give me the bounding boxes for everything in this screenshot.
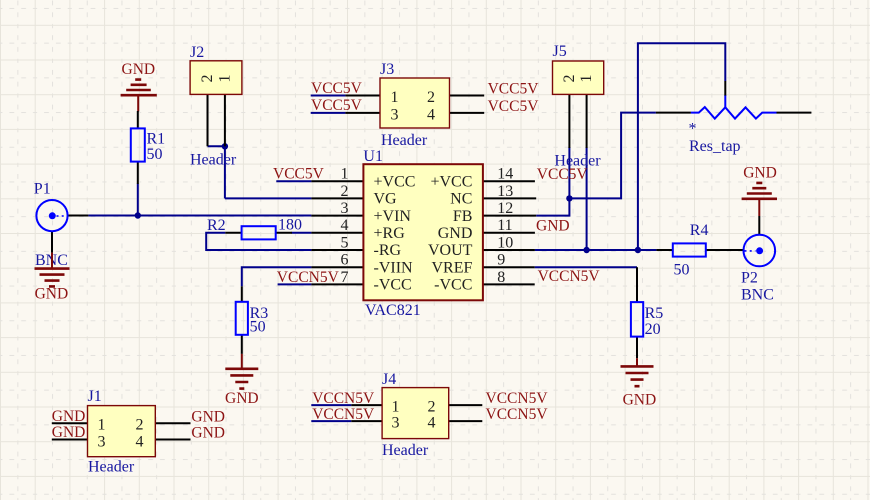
svg-text:VREF: VREF bbox=[431, 259, 472, 276]
svg-text:50: 50 bbox=[674, 262, 690, 279]
svg-text:GND: GND bbox=[438, 225, 473, 242]
svg-text:P1: P1 bbox=[34, 181, 51, 198]
svg-text:FB: FB bbox=[453, 208, 473, 225]
svg-text:GND: GND bbox=[225, 390, 259, 407]
svg-text:NC: NC bbox=[450, 191, 472, 208]
svg-text:3: 3 bbox=[341, 200, 349, 217]
svg-text:11: 11 bbox=[497, 217, 512, 234]
svg-text:-VIIN: -VIIN bbox=[374, 259, 414, 276]
wire R2 left to U1 pin5 bbox=[206, 233, 311, 250]
svg-text:20: 20 bbox=[645, 321, 661, 338]
svg-text:1: 1 bbox=[216, 75, 233, 83]
svg-text:3: 3 bbox=[98, 433, 106, 450]
svg-text:GND: GND bbox=[35, 286, 69, 303]
node junction loop/VOUT bbox=[635, 247, 641, 253]
svg-text:2: 2 bbox=[561, 75, 578, 83]
node junction J5 pin2 net bbox=[566, 195, 572, 201]
svg-text:VCCN5V: VCCN5V bbox=[486, 390, 549, 407]
svg-text:VCC5V: VCC5V bbox=[488, 81, 540, 98]
ground GND below R5 bbox=[621, 358, 657, 408]
connector J2 bbox=[190, 44, 242, 169]
svg-text:-VCC: -VCC bbox=[434, 277, 472, 294]
svg-text:GND: GND bbox=[52, 408, 86, 425]
svg-text:1: 1 bbox=[578, 75, 595, 83]
svg-text:VCC5V: VCC5V bbox=[537, 166, 589, 183]
ground GND above P2 bbox=[742, 165, 777, 217]
svg-text:VOUT: VOUT bbox=[428, 242, 473, 259]
connector J5 bbox=[553, 43, 604, 170]
svg-text:J1: J1 bbox=[88, 388, 102, 405]
svg-text:VCC5V: VCC5V bbox=[273, 166, 325, 183]
svg-text:Header: Header bbox=[190, 152, 237, 169]
svg-text:1: 1 bbox=[392, 399, 400, 416]
svg-text:VG: VG bbox=[374, 191, 398, 208]
svg-text:1: 1 bbox=[98, 416, 106, 433]
svg-text:Header: Header bbox=[382, 442, 429, 459]
svg-text:+VCC: +VCC bbox=[374, 173, 416, 190]
svg-text:5: 5 bbox=[341, 234, 349, 251]
connector J1 bbox=[52, 388, 191, 476]
wire J2 down bbox=[224, 146, 226, 198]
svg-text:VCCN5V: VCCN5V bbox=[486, 406, 549, 423]
svg-text:J4: J4 bbox=[382, 371, 396, 388]
svg-text:VCCN5V: VCCN5V bbox=[312, 390, 375, 407]
wire R1 bottom to net bbox=[137, 184, 139, 216]
wire J5 pin2 down bbox=[568, 147, 570, 198]
svg-text:3: 3 bbox=[391, 106, 399, 123]
resistor R5 bbox=[631, 267, 663, 358]
svg-text:Header: Header bbox=[381, 132, 428, 149]
svg-text:1: 1 bbox=[391, 89, 399, 106]
svg-text:VCCN5V: VCCN5V bbox=[312, 406, 375, 423]
svg-text:2: 2 bbox=[427, 89, 435, 106]
ground GND top-left bbox=[121, 61, 157, 112]
connector P1 BNC bbox=[34, 181, 89, 270]
wire to U1 pin12 FB bbox=[536, 198, 569, 215]
svg-text:2: 2 bbox=[136, 416, 144, 433]
svg-text:10: 10 bbox=[497, 234, 513, 251]
ground GND below R3 bbox=[225, 354, 259, 407]
wire to Res_tap left bbox=[569, 113, 656, 199]
svg-text:180: 180 bbox=[278, 217, 302, 234]
svg-text:4: 4 bbox=[427, 106, 435, 123]
svg-text:J2: J2 bbox=[190, 44, 204, 61]
svg-text:7: 7 bbox=[341, 269, 349, 286]
svg-text:GND: GND bbox=[743, 165, 777, 182]
node junction J2 bbox=[222, 143, 228, 149]
connector J3 bbox=[345, 61, 484, 149]
svg-text:R2: R2 bbox=[207, 217, 226, 234]
wire J2 to U1 pin2 bbox=[225, 197, 312, 199]
svg-text:4: 4 bbox=[136, 433, 144, 450]
wire J5 pin1 down to VOUT bbox=[586, 147, 588, 250]
node junction P1/R1 bbox=[135, 212, 141, 218]
svg-text:GND: GND bbox=[52, 424, 86, 441]
svg-text:J3: J3 bbox=[380, 61, 394, 78]
svg-text:*: * bbox=[689, 121, 697, 138]
svg-text:+VIN: +VIN bbox=[374, 208, 412, 225]
svg-text:GND: GND bbox=[191, 425, 225, 442]
svg-text:Header: Header bbox=[88, 459, 135, 476]
wire VOUT loop to Res_tap tap bbox=[638, 43, 725, 250]
svg-text:4: 4 bbox=[428, 415, 436, 432]
svg-text:-RG: -RG bbox=[374, 242, 402, 259]
svg-text:VCCN5V: VCCN5V bbox=[277, 269, 340, 286]
wire P1 to U1 pin3 bbox=[88, 215, 311, 217]
svg-text:50: 50 bbox=[250, 319, 266, 336]
svg-text:9: 9 bbox=[497, 252, 505, 269]
node junction J5 pin1/VOUT bbox=[583, 247, 589, 253]
ground GND below P1 bbox=[35, 253, 70, 303]
wire J2 pins link bbox=[208, 145, 225, 147]
wire U1 pin9 VREF to R5 bbox=[535, 266, 637, 268]
svg-text:VAC821: VAC821 bbox=[365, 302, 421, 319]
svg-text:VCC5V: VCC5V bbox=[488, 98, 540, 115]
svg-text:GND: GND bbox=[191, 408, 225, 425]
svg-text:+VCC: +VCC bbox=[430, 173, 472, 190]
wire VCCN5V stub U1 pin7 bbox=[278, 283, 312, 285]
svg-text:50: 50 bbox=[147, 146, 163, 163]
svg-text:+RG: +RG bbox=[374, 225, 406, 242]
resistor R2 bbox=[207, 217, 302, 240]
svg-text:2: 2 bbox=[428, 399, 436, 416]
resistor R1 bbox=[131, 111, 165, 184]
svg-text:BNC: BNC bbox=[741, 287, 774, 304]
svg-text:Res_tap: Res_tap bbox=[689, 138, 741, 155]
svg-text:R5: R5 bbox=[645, 305, 664, 322]
svg-text:2: 2 bbox=[199, 75, 216, 83]
wire VCC5V stub J3 pin3 bbox=[311, 112, 346, 114]
wire VCC5V stub U1 pin1 bbox=[276, 180, 311, 182]
svg-text:14: 14 bbox=[497, 166, 513, 183]
svg-text:13: 13 bbox=[497, 183, 513, 200]
svg-text:8: 8 bbox=[497, 269, 505, 286]
svg-text:6: 6 bbox=[341, 252, 349, 269]
wire VCCN5V stub J4 pin1 bbox=[311, 404, 351, 406]
IC U1 VAC821 bbox=[311, 148, 536, 319]
svg-text:P2: P2 bbox=[741, 270, 758, 287]
wire VCC5V stub J3 pin1 bbox=[311, 95, 346, 97]
svg-text:R1: R1 bbox=[147, 131, 166, 148]
svg-text:VCC5V: VCC5V bbox=[311, 80, 363, 97]
resistor R4 bbox=[656, 222, 743, 279]
resistor Res_tap bbox=[656, 81, 812, 155]
svg-text:GND: GND bbox=[122, 61, 156, 78]
wire VCCN5V stub J4 pin3 bbox=[311, 420, 351, 422]
svg-text:2: 2 bbox=[341, 183, 349, 200]
svg-text:GND: GND bbox=[536, 218, 570, 235]
svg-text:1: 1 bbox=[341, 166, 349, 183]
svg-text:J5: J5 bbox=[553, 43, 567, 60]
wire R2 right to U1 pin4 bbox=[292, 232, 312, 234]
svg-text:GND: GND bbox=[623, 392, 657, 409]
resistor R3 bbox=[236, 286, 269, 354]
svg-text:VCC5V: VCC5V bbox=[311, 97, 363, 114]
connector P2 BNC bbox=[741, 216, 775, 304]
svg-text:4: 4 bbox=[341, 217, 349, 234]
svg-text:R4: R4 bbox=[690, 222, 709, 239]
svg-text:-VCC: -VCC bbox=[374, 277, 412, 294]
connector J4 bbox=[351, 371, 482, 459]
wire VOUT U1 pin10 to R4 bbox=[535, 249, 657, 251]
svg-text:12: 12 bbox=[497, 200, 513, 217]
svg-text:3: 3 bbox=[392, 415, 400, 432]
svg-text:U1: U1 bbox=[363, 148, 383, 165]
svg-text:VCCN5V: VCCN5V bbox=[538, 268, 601, 285]
wire U1 pin6 to R3 bbox=[242, 267, 312, 286]
